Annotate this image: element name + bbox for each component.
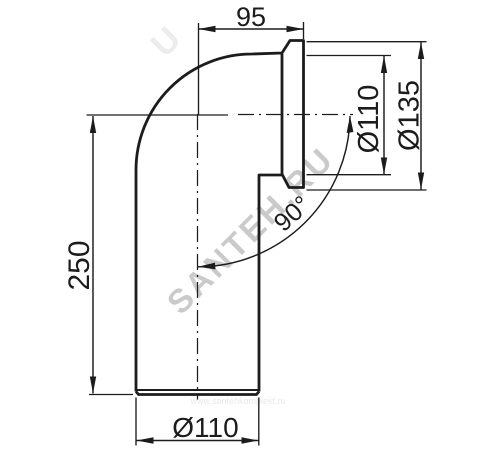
- wire: pipe bottom edge: [136, 392, 259, 395]
- wire: bottom chamfer line: [137, 389, 258, 391]
- svg-text:SANTEH.RU: SANTEH.RU: [160, 140, 341, 321]
- wire: elbow body outline: [136, 41, 304, 392]
- svg-text:250: 250: [63, 240, 96, 290]
- svg-text:Ø135: Ø135: [394, 80, 426, 151]
- dimension 250: [63, 115, 228, 395]
- node: vertical centerline: [197, 114, 199, 400]
- dimension 95: [199, 2, 304, 115]
- watermark SANTEH.RU diagonal: [160, 140, 341, 321]
- dimension 90 degree arc: [198, 116, 353, 269]
- wire: socket flange left edge: [281, 54, 284, 175]
- dimension D110 right: [307, 56, 392, 175]
- node: horizontal centerline: [238, 114, 353, 116]
- svg-text:Ø110: Ø110: [172, 412, 238, 443]
- svg-text:U: U: [144, 20, 188, 64]
- svg-text:95: 95: [236, 2, 266, 32]
- svg-text:Ø110: Ø110: [353, 85, 385, 154]
- dimension D110 bottom: [136, 398, 259, 446]
- dimension D135: [307, 42, 427, 190]
- svg-text:www.santehkomplekt.ru: www.santehkomplekt.ru: [189, 396, 285, 406]
